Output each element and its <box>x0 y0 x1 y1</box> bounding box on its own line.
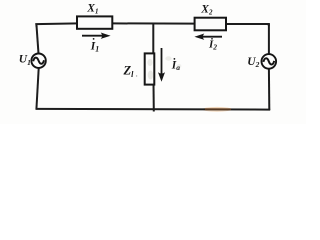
current arrow I1 (right) <box>82 35 103 37</box>
wire middle vertical upper <box>152 23 154 54</box>
orange scan smear under bottom wire <box>202 107 232 112</box>
wire bottom <box>36 108 271 111</box>
wire left vertical upper <box>36 24 38 54</box>
orange tint over wire segment <box>205 108 231 110</box>
wire top-left segment <box>36 23 77 26</box>
source U1 circle <box>31 54 45 68</box>
wire middle vertical lower <box>153 84 155 112</box>
source U2 circle <box>262 54 277 69</box>
resistor X1 box <box>77 16 112 28</box>
impedance ZL box <box>145 53 155 84</box>
wire left vertical lower <box>36 68 38 110</box>
scan smudge near Ia <box>165 56 171 60</box>
source U1 sine <box>33 58 44 64</box>
wire top-right segment <box>226 24 269 26</box>
wire right vertical lower <box>268 69 270 111</box>
wire right vertical upper <box>268 24 270 55</box>
resistor X2 box <box>195 18 226 31</box>
scan smudges inside ZL box <box>147 59 152 66</box>
current arrow Ia (down) <box>161 48 163 75</box>
wire top middle segment <box>112 22 196 24</box>
current arrow I2 (left) <box>202 36 222 38</box>
source U2 sine <box>263 58 274 64</box>
